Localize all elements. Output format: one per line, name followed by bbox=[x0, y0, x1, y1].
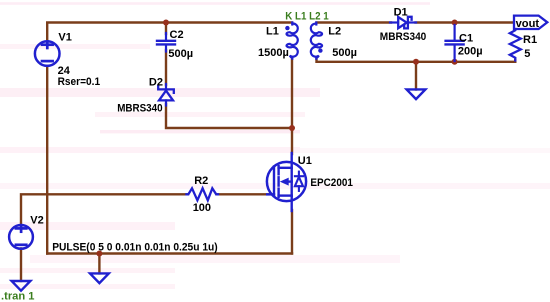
wire top-left horizontal from V1 to L1 bbox=[47, 23, 292, 42]
node dot bottom ground junction bbox=[96, 251, 102, 257]
svg-text:200µ: 200µ bbox=[458, 46, 483, 58]
inductor L1 bbox=[287, 23, 298, 59]
wire C2 to D2 bbox=[165, 50, 167, 85]
ground bottom middle bbox=[90, 273, 109, 283]
wire bottom-rail ground stub bbox=[98, 254, 100, 274]
svg-text:5: 5 bbox=[524, 48, 530, 60]
svg-text:C2: C2 bbox=[170, 29, 184, 41]
svg-text:K L1 L2 1: K L1 L2 1 bbox=[285, 11, 328, 23]
L2 phase dot bbox=[318, 48, 322, 52]
node dot C1 bottom bbox=[452, 59, 458, 65]
wire R2 to gate bbox=[217, 193, 269, 195]
voltage source V1 bbox=[35, 41, 60, 66]
svg-text:PULSE(0 5 0 0.01n 0.01n 0.25u: PULSE(0 5 0 0.01n 0.01n 0.25u 1u) bbox=[52, 241, 218, 253]
MOSFET U1 EPC2001 bbox=[267, 153, 306, 211]
svg-text:100: 100 bbox=[193, 202, 211, 214]
svg-text:EPC2001: EPC2001 bbox=[310, 177, 353, 189]
wire bottom rail bbox=[47, 252, 292, 254]
wire D1 to vout flag bbox=[416, 21, 515, 23]
svg-text:U1: U1 bbox=[298, 155, 312, 167]
svg-text:V2: V2 bbox=[30, 215, 43, 227]
wire D2 down and right to drain node bbox=[166, 104, 292, 128]
svg-text:V1: V1 bbox=[58, 32, 71, 44]
L1 phase dot bbox=[285, 26, 289, 30]
wire V2 bottom to ground bbox=[20, 248, 22, 281]
wire L2 bottom rail to R1 bottom bbox=[317, 58, 516, 62]
svg-text:MBRS340: MBRS340 bbox=[380, 31, 427, 43]
voltage source V2 bbox=[9, 225, 33, 249]
svg-text:500µ: 500µ bbox=[168, 48, 193, 60]
svg-text:L1: L1 bbox=[266, 26, 279, 38]
wire L1 bottom to MOSFET drain bbox=[291, 58, 293, 155]
wire L2 top to D1 bbox=[317, 21, 392, 23]
node dot right ground junction bbox=[413, 59, 419, 65]
svg-text:D2: D2 bbox=[149, 77, 163, 89]
diode D1 bbox=[390, 17, 416, 29]
wire V2 up and right to R2 bbox=[21, 194, 188, 225]
svg-text:1500µ: 1500µ bbox=[258, 47, 289, 59]
capacitor C1 bbox=[446, 25, 464, 61]
svg-text:C1: C1 bbox=[459, 33, 473, 45]
svg-text:vout: vout bbox=[516, 18, 540, 30]
svg-text:500µ: 500µ bbox=[332, 47, 357, 59]
svg-text:Rser=0.1: Rser=0.1 bbox=[58, 76, 101, 88]
ground V2 bbox=[12, 281, 31, 291]
inductor L2 bbox=[311, 23, 322, 59]
node dot drain junction bbox=[289, 125, 295, 131]
ground right bbox=[407, 89, 426, 99]
svg-text:MBRS340: MBRS340 bbox=[117, 102, 162, 114]
wire MOSFET source to bottom rail bbox=[291, 210, 293, 254]
wire C2 upper lead bbox=[165, 23, 167, 35]
resistor R1 bbox=[510, 29, 521, 61]
svg-text:L2: L2 bbox=[328, 26, 341, 38]
resistor R2 bbox=[187, 188, 219, 200]
svg-text:D1: D1 bbox=[394, 7, 408, 19]
svg-text:R1: R1 bbox=[523, 34, 537, 46]
svg-text:R2: R2 bbox=[194, 175, 208, 187]
capacitor C2 bbox=[157, 33, 175, 52]
diode D2 bbox=[158, 84, 174, 106]
svg-text:.tran 1: .tran 1 bbox=[1, 291, 35, 302]
node dot C1 top bbox=[452, 20, 458, 26]
wire right ground stub bbox=[415, 62, 417, 90]
node dot C2 top bbox=[163, 20, 169, 26]
wire left vertical V1 bottom to bottom rail bbox=[46, 66, 48, 254]
net flag vout bbox=[514, 16, 547, 29]
